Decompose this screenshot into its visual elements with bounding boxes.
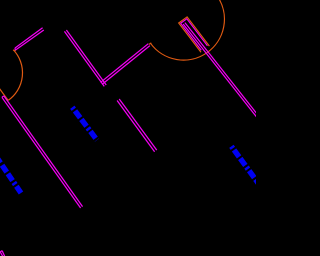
door D2 leaf inner rectangle (magenta) bbox=[181, 19, 208, 50]
wall W8 (bottom-left corner fragment, double magenta line) bbox=[0, 251, 5, 256]
door D1 hinge tick at wall W1 end bbox=[13, 49, 15, 52]
blue dashed line B1 (centre) bbox=[72, 107, 97, 140]
blue dashed line B2 (left edge) bbox=[0, 157, 21, 193]
wall W4 (V left branch, double magenta line) bbox=[64, 30, 106, 86]
wall W5 (long right wall, double magenta line) bbox=[183, 23, 259, 118]
door D1 swing arc (left edge) bbox=[8, 50, 22, 101]
door D2 swing arc (top-right) bbox=[151, 0, 225, 60]
door D2 hinge tick at jamb J1 bbox=[149, 43, 151, 45]
wall W2 (long left wall, double magenta line) bbox=[2, 96, 83, 208]
door D2 leaf outer rectangle (orange) bbox=[179, 17, 210, 52]
door D1 leaf edge bbox=[0, 89, 8, 101]
wall W7 (middle wall, double magenta line) bbox=[117, 99, 157, 152]
blue dashed line B3 (right edge) bbox=[231, 146, 258, 183]
wall W1 (top-left, double magenta line) bbox=[15, 28, 44, 51]
wall W6 (V right branch up to door jamb J1) bbox=[101, 44, 150, 85]
